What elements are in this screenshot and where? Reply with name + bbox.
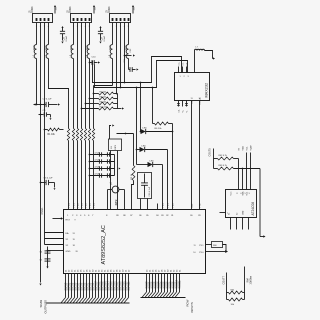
svg-text:ROW11: ROW11 [180, 280, 182, 289]
svg-text:SCAN3: SCAN3 [74, 282, 77, 290]
svg-text:0.1uF: 0.1uF [66, 35, 68, 41]
svg-text:OUTPUTS: OUTPUTS [43, 300, 47, 313]
svg-text:SCAN2: SCAN2 [71, 282, 74, 290]
svg-text:C6 0.1uF: C6 0.1uF [44, 178, 54, 180]
svg-text:R1OUT: R1OUT [199, 97, 201, 105]
svg-text:R6 10k: R6 10k [155, 128, 163, 130]
svg-text:10uH: 10uH [126, 45, 128, 51]
svg-text:SCAN10: SCAN10 [95, 281, 98, 291]
svg-text:AT89S8252_AC: AT89S8252_AC [101, 225, 107, 264]
svg-text:CON4: CON4 [109, 6, 111, 13]
svg-text:SCAN21: SCAN21 [128, 281, 131, 291]
svg-text:4.7pF: 4.7pF [95, 159, 101, 161]
svg-text:SCAN9: SCAN9 [92, 282, 95, 290]
svg-text:CON4: CON4 [32, 6, 34, 13]
svg-text:SCAN15: SCAN15 [110, 281, 113, 291]
svg-text:11: 11 [194, 245, 196, 247]
svg-text:C2-: C2- [179, 109, 181, 113]
svg-text:COUT5: COUT5 [208, 148, 211, 157]
svg-text:ROW1: ROW1 [150, 281, 152, 289]
svg-text:0.1uF: 0.1uF [104, 35, 106, 41]
svg-text:C1-: C1- [183, 62, 185, 66]
svg-text:R5 1k: R5 1k [131, 173, 133, 179]
svg-text:SCAN11: SCAN11 [98, 281, 101, 291]
svg-text:SCAN17: SCAN17 [116, 281, 119, 291]
svg-text:10uH: 10uH [46, 45, 48, 51]
svg-text:10: 10 [193, 252, 195, 254]
svg-text:X2: X2 [237, 213, 239, 215]
svg-text:ROW9: ROW9 [174, 281, 176, 289]
svg-text:X1: X1 [229, 213, 231, 215]
svg-text:ROW8: ROW8 [171, 281, 173, 289]
svg-text:R7 10k: R7 10k [100, 91, 108, 93]
svg-text:SCAN12: SCAN12 [101, 281, 104, 291]
svg-text:ROW3: ROW3 [156, 281, 158, 289]
svg-text:ROW4: ROW4 [159, 281, 161, 289]
svg-text:10uH: 10uH [34, 45, 36, 51]
svg-text:R63 4.7k: R63 4.7k [219, 165, 228, 167]
svg-text:ROW6: ROW6 [165, 281, 167, 289]
svg-text:CON4: CON4 [70, 6, 72, 13]
svg-text:RST: RST [66, 220, 71, 222]
svg-text:LED: LED [142, 146, 147, 148]
svg-text:SCAN5: SCAN5 [80, 282, 83, 290]
svg-text:ROW0: ROW0 [147, 281, 149, 289]
svg-text:R8 10k: R8 10k [100, 96, 108, 98]
svg-text:ROW10: ROW10 [177, 280, 179, 289]
svg-text:ROW5: ROW5 [162, 281, 164, 289]
svg-text:LED: LED [150, 161, 155, 163]
svg-text:SCAN18: SCAN18 [119, 281, 122, 291]
svg-text:+5V: +5V [134, 6, 136, 10]
svg-text:SQW: SQW [251, 145, 253, 150]
svg-text:4.7pF: 4.7pF [95, 173, 101, 175]
svg-text:R64: R64 [246, 277, 249, 282]
svg-text:SCAN1: SCAN1 [68, 282, 71, 290]
svg-text:R1 10k: R1 10k [48, 134, 56, 136]
svg-text:COUT7: COUT7 [222, 275, 225, 284]
svg-text:10kOhm: 10kOhm [250, 276, 252, 285]
svg-text:MAX232: MAX232 [204, 83, 208, 98]
svg-text:GND: GND [243, 210, 245, 215]
svg-text:T1IN: T1IN [191, 100, 193, 105]
svg-text:4.7pF: 4.7pF [95, 152, 101, 154]
svg-text:+5V: +5V [56, 6, 58, 10]
svg-text:SCAN8: SCAN8 [89, 282, 92, 290]
svg-text:SCAN6: SCAN6 [83, 282, 86, 290]
svg-text:10uH: 10uH [87, 45, 89, 51]
svg-text:PSE: PSE [200, 203, 202, 208]
svg-text:ALE: ALE [191, 203, 194, 208]
svg-text:+5V: +5V [95, 6, 97, 10]
svg-text:10uH: 10uH [71, 45, 73, 51]
svg-text:GND: GND [66, 251, 71, 253]
svg-text:CS/E1: CS/E1 [41, 207, 44, 215]
svg-text:R10 10k: R10 10k [100, 106, 109, 108]
svg-text:AT24C08: AT24C08 [251, 202, 255, 216]
svg-text:SCL: SCL [247, 192, 249, 196]
svg-text:INPUTS: INPUTS [190, 302, 194, 312]
svg-text:SCAN14: SCAN14 [107, 281, 110, 291]
svg-text:4MHz: 4MHz [116, 199, 118, 206]
svg-text:SCAN20: SCAN20 [125, 281, 128, 291]
svg-text:SCAN0: SCAN0 [65, 282, 68, 290]
svg-text:V-: V- [187, 110, 189, 112]
svg-text:SDA: SDA [242, 146, 245, 151]
svg-text:C13 4.7uF: C13 4.7uF [149, 186, 151, 196]
svg-text:VCC: VCC [231, 191, 233, 196]
svg-text:SCAN7: SCAN7 [86, 282, 89, 290]
svg-text:10uH: 10uH [110, 45, 112, 51]
svg-text:R62 4.7k: R62 4.7k [219, 155, 228, 157]
svg-text:ROW2: ROW2 [153, 281, 155, 289]
svg-text:C2 0.1uF: C2 0.1uF [43, 99, 53, 101]
svg-text:SCAN4: SCAN4 [77, 282, 80, 290]
svg-text:ROW7: ROW7 [168, 281, 170, 289]
svg-text:SCAN19: SCAN19 [122, 281, 125, 291]
svg-text:LED: LED [143, 128, 148, 130]
svg-text:SCAN13: SCAN13 [104, 281, 107, 291]
svg-text:R9 10k: R9 10k [100, 101, 108, 103]
svg-text:4.7pF: 4.7pF [95, 166, 101, 168]
svg-text:SCAN16: SCAN16 [113, 281, 116, 291]
